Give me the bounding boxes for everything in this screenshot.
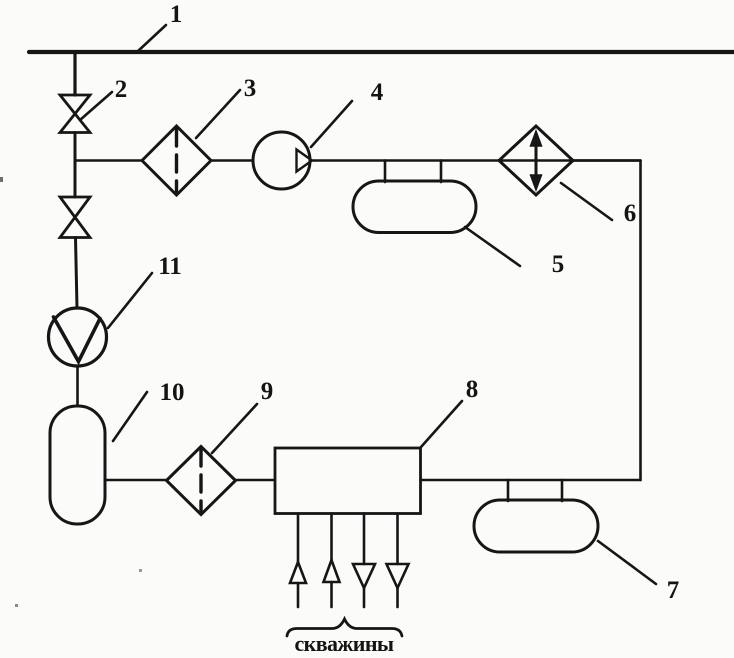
- svg-text:7: 7: [667, 577, 680, 604]
- svg-text:11: 11: [158, 253, 182, 280]
- speck: scan mark left edge: [0, 177, 3, 182]
- leader line for label 2: [80, 92, 112, 120]
- svg-text:5: 5: [552, 251, 565, 278]
- wire: valve 2a to junction: [74, 133, 77, 198]
- wire: bottom run from corner to manifold 8: [421, 479, 641, 482]
- svg-text:4: 4: [371, 79, 384, 106]
- leader line for label 4: [311, 101, 352, 147]
- svg-text:8: 8: [466, 376, 479, 403]
- wire: main pipeline (net 1): [29, 50, 734, 54]
- well line d: [387, 514, 409, 608]
- wire: filter 3 to pump 4: [211, 159, 253, 162]
- wire: tank 10 to filter 9: [105, 479, 167, 482]
- leader line for label 1: [137, 25, 166, 52]
- tank 10 (vertical capsule): [50, 406, 105, 524]
- manifold 8 (rectangle): [275, 448, 421, 514]
- svg-text:10: 10: [160, 379, 185, 406]
- wire: pump 4 to regulator 6: [310, 159, 641, 162]
- wire: branch to filter 3: [75, 159, 142, 162]
- filter 3 (diamond): [142, 126, 211, 195]
- well line b: [324, 514, 340, 608]
- svg-text:1: 1: [170, 1, 183, 28]
- wire: drop from pipeline to valve 2a: [73, 53, 76, 95]
- valve 2a: [60, 95, 90, 133]
- pump 11 (circle with V): [49, 308, 107, 366]
- wire: filter 9 to manifold 8: [236, 479, 276, 482]
- svg-text:3: 3: [244, 75, 257, 102]
- svg-text:скважины: скважины: [294, 631, 393, 656]
- leader line for label 9: [212, 404, 257, 453]
- leader line for label 6: [561, 183, 612, 220]
- svg-text:6: 6: [624, 200, 637, 227]
- brace for wells: [287, 619, 402, 636]
- svg-text:9: 9: [261, 378, 274, 405]
- tank 7 nozzle right: [561, 480, 564, 501]
- wire: right vertical run: [639, 161, 642, 481]
- speck: scan mark bottom left: [15, 604, 18, 607]
- valve 2b: [60, 197, 90, 238]
- tank 5 (horizontal capsule): [353, 181, 476, 233]
- leader line for label 5: [465, 227, 520, 266]
- leader line for label 10: [113, 392, 147, 441]
- wire: valve 2b down to pump 11: [76, 238, 78, 309]
- pump 4 (circle with right triangle): [253, 132, 312, 189]
- wire: pump 11 to tank 10: [76, 366, 79, 406]
- leader line for label 8: [421, 401, 462, 447]
- leader line for label 3: [196, 90, 240, 138]
- regulator 6 (diamond with double arrow): [499, 126, 573, 195]
- wire: regulator 6 to right corner: [573, 159, 641, 162]
- tank 5 nozzle left: [384, 161, 387, 183]
- filter 9 (diamond): [167, 447, 236, 515]
- leader line for label 11: [108, 273, 152, 328]
- tank 7 nozzle left: [507, 480, 510, 501]
- speck: scan mark mid: [139, 569, 142, 572]
- tank 7 (horizontal capsule): [474, 500, 598, 552]
- well line c: [353, 514, 375, 608]
- tank 5 nozzle right: [440, 161, 443, 183]
- well line a: [290, 514, 306, 608]
- svg-text:2: 2: [115, 76, 128, 103]
- leader line for label 7: [598, 541, 656, 584]
